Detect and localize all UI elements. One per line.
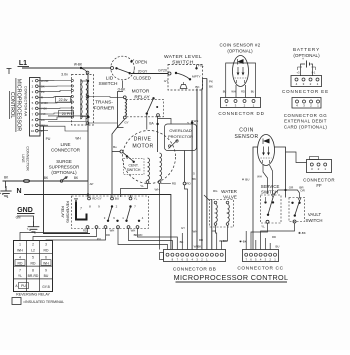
svg-text:GY: GY <box>181 226 185 230</box>
svg-text:PROTECTOR: PROTECTOR <box>168 134 193 139</box>
svg-text:(OPTIONAL): (OPTIONAL) <box>227 48 253 53</box>
wire N bus <box>24 195 171 250</box>
svg-text:1: 1 <box>19 243 21 247</box>
svg-text:COIN: COIN <box>239 127 254 133</box>
svg-text:CLOSED: CLOSED <box>133 76 151 81</box>
svg-text:SWITCH: SWITCH <box>99 81 118 87</box>
motor relay <box>126 99 164 116</box>
svg-text:=INSULATED TERMINAL: =INSULATED TERMINAL <box>23 300 64 304</box>
connector CC <box>243 250 279 262</box>
svg-text:MICROPROCESSOR: MICROPROCESSOR <box>16 79 22 132</box>
wire FF to vault switch rail <box>286 152 307 163</box>
svg-text:W-BK: W-BK <box>194 245 202 249</box>
motor relay contacts <box>152 97 154 99</box>
svg-text:WH: WH <box>17 249 23 253</box>
wire bundle to connector BB <box>191 120 193 250</box>
svg-text:CARD (OPTIONAL): CARD (OPTIONAL) <box>284 124 328 129</box>
svg-text:GY20: GY20 <box>158 69 167 73</box>
svg-text:OR: OR <box>212 229 216 233</box>
svg-text:(OPTIONAL): (OPTIONAL) <box>293 53 320 58</box>
wires coin sensor leads <box>253 147 258 250</box>
svg-text:PU: PU <box>46 137 51 141</box>
label 20 Pt <box>59 111 74 117</box>
svg-text:4: 4 <box>19 256 21 260</box>
coin sensor <box>258 135 275 166</box>
wires above CC <box>255 240 257 250</box>
reversing relay <box>72 196 149 229</box>
svg-text:YL: YL <box>261 225 265 229</box>
svg-text:CONNECTOR AA: CONNECTOR AA <box>24 86 28 117</box>
svg-text:CONNECTOR EE: CONNECTOR EE <box>282 89 329 94</box>
wire stub BB pin4 <box>181 233 183 250</box>
svg-text:LINE: LINE <box>21 154 25 163</box>
wires overload <box>158 119 171 125</box>
svg-text:YL: YL <box>140 184 144 188</box>
svg-text:BATTERY: BATTERY <box>293 47 320 52</box>
svg-text:GY: GY <box>124 121 128 125</box>
svg-text:PU: PU <box>97 237 101 241</box>
svg-text:CONNECTOR DD: CONNECTOR DD <box>218 111 264 116</box>
svg-text:✱-BK: ✱-BK <box>239 240 247 244</box>
wire lid switch to water level switch <box>131 73 169 75</box>
svg-text:WH: WH <box>231 90 235 94</box>
svg-text:Bo: Bo <box>113 145 117 149</box>
svg-text:MICROPROCESSOR CONTROL: MICROPROCESSOR CONTROL <box>174 273 289 282</box>
transformer taps <box>86 71 89 74</box>
svg-text:RD: RD <box>18 261 23 265</box>
svg-text:W-BK: W-BK <box>219 239 227 243</box>
svg-text:WH: WH <box>194 119 199 123</box>
wire GND to chassis ground <box>17 216 34 223</box>
transformer T1 <box>72 75 94 126</box>
wires coin sensor #2 to DD <box>226 63 256 98</box>
svg-text:▼ BU: ▼ BU <box>242 178 250 182</box>
svg-text:DRIVE: DRIVE <box>134 136 152 142</box>
connector GG <box>292 98 321 109</box>
svg-text:RD: RD <box>44 249 49 253</box>
svg-text:H: H <box>226 212 230 214</box>
overload protector <box>165 124 197 151</box>
svg-text:CENT.: CENT. <box>128 164 138 168</box>
svg-text:MOTOR: MOTOR <box>132 89 150 95</box>
wire transformer rail down <box>87 74 89 181</box>
svg-text:WH: WH <box>155 188 160 192</box>
svg-text:O-BK: O-BK <box>118 88 127 92</box>
connector FF <box>307 160 332 173</box>
ground at left <box>5 181 7 188</box>
svg-text:RD: RD <box>31 261 36 265</box>
svg-text:BK: BK <box>209 85 213 89</box>
svg-text:WH: WH <box>75 137 81 141</box>
svg-text:3: 3 <box>45 243 47 247</box>
svg-text:RD: RD <box>106 233 110 237</box>
svg-text:CONNECTOR GG: CONNECTOR GG <box>284 113 327 118</box>
wires AA to transformer <box>48 80 72 82</box>
drive motor <box>123 131 176 184</box>
svg-text:SURGE: SURGE <box>56 159 72 164</box>
wires relay to terminal table <box>20 229 88 241</box>
svg-text:SERVICE: SERVICE <box>261 184 280 189</box>
reversing relay terminal table <box>14 241 53 292</box>
svg-text:REVERSING: REVERSING <box>65 201 69 223</box>
svg-text:FORMER: FORMER <box>94 106 115 112</box>
relay coil <box>76 202 87 220</box>
service switch <box>261 195 282 223</box>
svg-text:✱-BK: ✱-BK <box>298 231 306 235</box>
svg-text:2: 2 <box>32 243 34 247</box>
svg-text:SWITCH: SWITCH <box>306 218 323 223</box>
cent switch <box>124 159 145 175</box>
svg-text:WATER: WATER <box>221 189 237 194</box>
water valve <box>210 200 234 228</box>
svg-text:SENSOR: SENSOR <box>234 134 258 140</box>
svg-text:20 GY: 20 GY <box>138 69 148 73</box>
svg-text:WH: WH <box>193 230 198 234</box>
vault switch <box>289 198 305 222</box>
svg-text:MPTY: MPTY <box>192 75 201 79</box>
svg-text:W-BK: W-BK <box>74 63 83 67</box>
svg-text:20 Pt: 20 Pt <box>62 112 70 116</box>
connector AA <box>30 78 41 137</box>
wire L1 feed <box>22 67 81 69</box>
svg-text:L2: L2 <box>31 249 35 253</box>
line connector contact <box>23 179 29 182</box>
svg-text:BU: BU <box>44 274 49 278</box>
svg-text:22.6v: 22.6v <box>59 98 68 102</box>
svg-text:RG: RG <box>213 189 218 193</box>
pressure dome <box>180 85 187 89</box>
enclosure rail <box>44 126 91 234</box>
svg-text:CONNECTOR: CONNECTOR <box>51 148 81 153</box>
svg-text:9: 9 <box>45 268 47 272</box>
battery B1 <box>306 61 308 68</box>
coin sensor #2 <box>233 56 249 87</box>
svg-text:OVERLOAD: OVERLOAD <box>169 128 191 133</box>
svg-text:BU: BU <box>223 90 227 94</box>
svg-text:MOTOR: MOTOR <box>132 143 153 149</box>
svg-text:RD: RD <box>272 235 276 239</box>
wire service to vault top (OR/BR) <box>274 190 300 198</box>
svg-text:WH: WH <box>110 229 115 233</box>
wire relay to cent switch <box>112 119 125 152</box>
lid switch <box>111 56 135 80</box>
svg-text:C: C <box>214 212 218 214</box>
svg-text:6: 6 <box>45 256 47 260</box>
relay coil feed wires <box>87 195 89 198</box>
svg-text:CONTROL: CONTROL <box>9 92 15 118</box>
wire transformer to relay coil <box>89 96 123 99</box>
wires relay to connector BB <box>118 229 168 250</box>
svg-text:RD GY: RD GY <box>92 197 102 201</box>
surge suppressor symbol <box>60 180 63 183</box>
wires service switch to CC <box>251 223 268 249</box>
connector BB <box>164 250 226 262</box>
legend insulated terminal <box>12 298 21 305</box>
svg-text:WH: WH <box>257 175 262 179</box>
svg-text:CONNECTOR CC: CONNECTOR CC <box>237 265 283 271</box>
wires water valve <box>204 195 210 201</box>
svg-text:LINE: LINE <box>60 142 70 147</box>
svg-text:VALVE: VALVE <box>223 195 237 200</box>
wires vault switch to CC <box>261 223 295 250</box>
svg-text:8-1: 8-1 <box>312 71 316 75</box>
svg-text:WATER LEVEL: WATER LEVEL <box>164 54 202 60</box>
svg-text:TRANS-: TRANS- <box>95 100 113 106</box>
svg-text:RD: RD <box>83 229 87 233</box>
svg-text:VAULT: VAULT <box>308 212 322 217</box>
svg-text:CONNECTOR: CONNECTOR <box>25 146 29 171</box>
svg-text:WH: WH <box>131 229 136 233</box>
svg-text:SUPPRESSOR: SUPPRESSOR <box>49 165 80 170</box>
label 22.6v <box>56 97 71 103</box>
svg-text:CONNECTOR: CONNECTOR <box>303 177 335 182</box>
svg-text:CONNECTOR BB: CONNECTOR BB <box>173 266 216 272</box>
svg-text:BU: BU <box>276 245 280 249</box>
wire pin8/9 run right <box>48 115 88 117</box>
wire AA pin10 to PU <box>38 126 43 131</box>
svg-text:3.0v: 3.0v <box>61 73 68 77</box>
svg-text:BR-RD: BR-RD <box>134 233 143 237</box>
svg-text:BR-RD: BR-RD <box>28 274 39 278</box>
svg-text:AP: AP <box>90 182 94 186</box>
relay top terminals <box>88 197 91 200</box>
wires relay to motor <box>146 114 148 130</box>
svg-text:RD: RD <box>241 90 245 94</box>
svg-text:WH: WH <box>43 261 49 265</box>
svg-text:BU: BU <box>251 90 255 94</box>
svg-text:OPEN: OPEN <box>135 60 147 65</box>
svg-text:PK: PK <box>209 80 213 84</box>
svg-text:PU: PU <box>21 284 26 288</box>
svg-text:GY-B: GY-B <box>42 285 50 289</box>
wire mains stub <box>8 69 10 75</box>
svg-text:GY: GY <box>164 79 168 83</box>
svg-text:GND: GND <box>17 207 33 214</box>
water level switch <box>168 65 203 91</box>
svg-text:YL: YL <box>18 274 22 278</box>
connector EE <box>291 76 322 87</box>
svg-text:7: 7 <box>19 268 21 272</box>
svg-text:BK: BK <box>192 177 196 181</box>
svg-text:LID: LID <box>106 76 114 82</box>
svg-text:7: 7 <box>80 207 82 211</box>
svg-text:1: 1 <box>133 69 135 73</box>
svg-text:5: 5 <box>32 256 34 260</box>
svg-text:10: 10 <box>31 129 35 133</box>
relay bottom terminals <box>86 226 89 229</box>
junction on L1 <box>80 67 82 69</box>
svg-text:8: 8 <box>32 268 34 272</box>
svg-text:L1: L1 <box>19 60 27 67</box>
svg-text:COIN SENSOR #2: COIN SENSOR #2 <box>219 42 260 47</box>
relay coil bracket <box>117 92 123 128</box>
svg-text:SWITCH: SWITCH <box>127 168 141 172</box>
svg-text:BK: BK <box>180 240 184 244</box>
svg-text:RELAY: RELAY <box>60 206 64 218</box>
svg-text:+: + <box>302 57 304 61</box>
svg-text:YL: YL <box>134 197 138 201</box>
svg-text:FUL: FUL <box>198 63 204 67</box>
wires motor leads <box>111 152 113 195</box>
connector DD <box>221 98 261 108</box>
svg-text:REVERSING RELAY: REVERSING RELAY <box>16 293 50 297</box>
motor windings <box>148 158 150 180</box>
svg-text:RD: RD <box>199 238 203 242</box>
svg-text:(OPTIONAL): (OPTIONAL) <box>51 170 77 175</box>
svg-text:BU: BU <box>115 197 119 201</box>
svg-text:EXTERNAL DEBIT: EXTERNAL DEBIT <box>284 119 327 124</box>
svg-text:SWITCH: SWITCH <box>261 190 278 195</box>
svg-text:N: N <box>16 188 21 195</box>
svg-text:FF: FF <box>316 183 322 188</box>
